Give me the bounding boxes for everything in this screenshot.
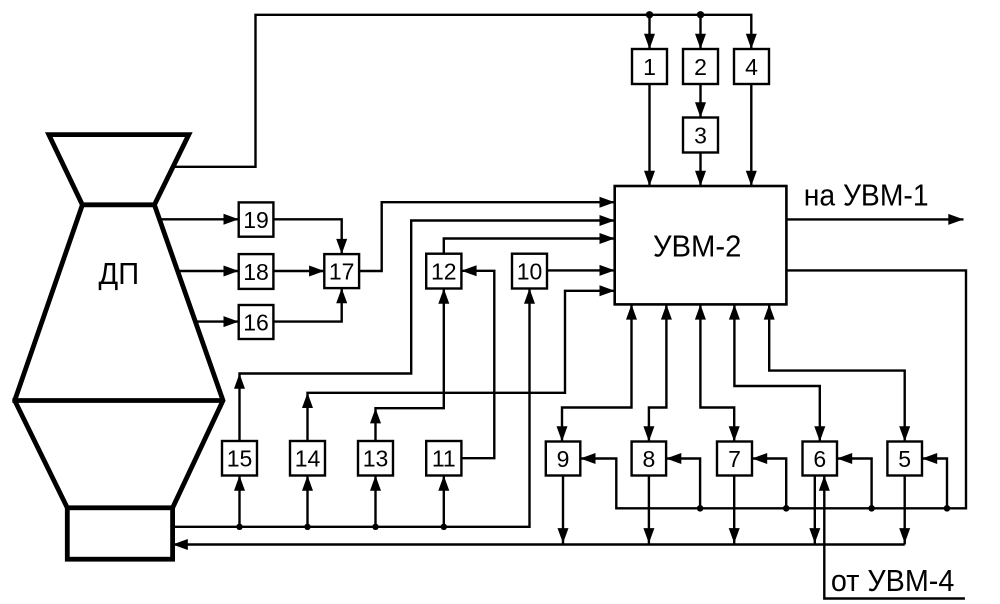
wire block 12 top to УВМ-2 input 3 [444,239,615,254]
svg-text:7: 7 [728,446,741,472]
wire УВМ-2 bottom link to block 7 [700,304,734,441]
svg-text:11: 11 [432,446,456,472]
svg-text:19: 19 [243,207,269,233]
wire block 3 to УВМ-2 top [699,153,701,187]
wire от УВМ-4 into block 6 bottom [824,476,965,599]
svg-text:3: 3 [694,122,707,148]
wire block 10 to УВМ-2 input 4 [547,269,615,271]
wire block 17 to УВМ-2 input 1 [359,202,615,271]
block 16 [239,305,274,339]
svg-text:1: 1 [643,54,656,80]
node junction dot bus x649.5 [646,11,653,18]
block 18 [239,254,274,289]
furnace ДП outline [12,135,223,560]
block 7 [717,442,752,476]
node junction dot bus x700.5 [697,11,704,18]
wire branch to block 6 right [837,459,872,509]
node junction dot bus508 x947 [944,505,951,512]
wire riser to block 15 [238,476,240,527]
wire block 1 to УВМ-2 top [648,84,650,186]
node junction dot bus x443.8 [441,524,447,530]
svg-text:8: 8 [642,446,655,472]
block 12 [426,254,461,289]
wire block 4 to УВМ-2 top [750,84,752,186]
wire branch to block 8 right [666,459,700,509]
svg-text:15: 15 [227,446,253,472]
svg-text:14: 14 [295,446,321,472]
node junction dot bus x239.5 [236,524,242,530]
wire УВМ-2 bottom link to block 8 [649,304,667,441]
svg-text:17: 17 [329,259,355,285]
block 19 [239,202,274,236]
wire block 18 to block 17 left [273,270,324,272]
block 6 [803,442,838,476]
wire block 9 down to return line [562,476,564,545]
wire block 6 down to return line [814,476,816,545]
wire return line to furnace [173,543,905,545]
block 3 [683,118,718,153]
svg-text:от УВМ-4: от УВМ-4 [831,563,955,598]
svg-text:12: 12 [431,259,457,285]
wire block 13 up to block 12 bottom [376,289,444,442]
block 8 [632,442,667,476]
block 5 [887,442,922,476]
wire bus drop to block 1 [648,15,650,49]
svg-text:9: 9 [557,446,570,472]
block 4 [734,49,769,84]
svg-text:2: 2 [694,54,707,80]
svg-text:5: 5 [898,446,911,472]
wire block 19 to block 17 top [273,219,341,254]
wire УВМ-2 bottom link to block 5 [769,304,905,441]
block 2 [683,49,718,84]
wire furnace to block 18 [178,270,239,272]
block 11 [426,441,461,476]
wire bus from furnace to block 10 bottom [173,289,530,527]
wire riser to block 13 [374,476,376,527]
op-amp main computer УВМ-2 [615,186,787,304]
block 10 [512,254,547,289]
block 13 [358,441,393,476]
svg-text:на УВМ-1: на УВМ-1 [804,178,929,213]
wire УВМ-2 bottom link to block 9 [562,304,632,441]
wire branch to block 5 right [922,459,947,509]
block 17 [324,254,359,288]
block 14 [290,441,325,476]
svg-text:10: 10 [517,259,543,285]
wire block 11 right to block 12 right [461,271,494,458]
node junction dot bus508 x700.1 [697,505,704,512]
svg-text:16: 16 [243,309,269,335]
wire block 15 up to УВМ-2 input 2 [240,221,615,442]
svg-text:13: 13 [363,446,389,472]
block 1 [632,49,667,84]
svg-text:УВМ-2: УВМ-2 [653,228,742,263]
wire block 2 to block 3 [699,84,701,118]
wire furnace top to bus feeding 1,2,4 [173,15,751,167]
wire УВМ-2 output 2 to right-edge bus and block 9 right [580,270,966,508]
wire riser to block 14 [306,476,308,527]
wire branch to block 7 right [752,459,786,509]
wire furnace to block 16 [195,320,238,322]
block 9 [546,442,581,476]
svg-text:6: 6 [813,446,826,472]
wire УВМ-2 bottom link to block 6 [734,304,819,441]
node junction dot bus508 x786.2 [783,505,790,512]
svg-text:ДП: ДП [99,256,140,291]
wire УВМ-2 output to УВМ-1 [786,218,963,220]
wire block 7 down to return line [733,476,735,545]
wire furnace to block 19 [160,218,239,220]
svg-text:4: 4 [745,54,758,80]
node junction dot bus x375.5 [372,524,378,530]
block 15 [222,441,257,476]
wire bus drop to block 2 [699,15,701,49]
wire block 14 up to УВМ-2 input 5 [308,291,615,441]
wire block 16 to block 17 bottom [273,288,341,322]
svg-text:18: 18 [243,259,269,285]
wire block 8 down to return line [648,476,650,545]
wire block 5 down to return line [904,476,906,545]
node junction dot bus508 x871.6 [868,505,875,512]
wire riser to block 11 [443,476,445,527]
node junction dot bus x307.5 [304,524,310,530]
